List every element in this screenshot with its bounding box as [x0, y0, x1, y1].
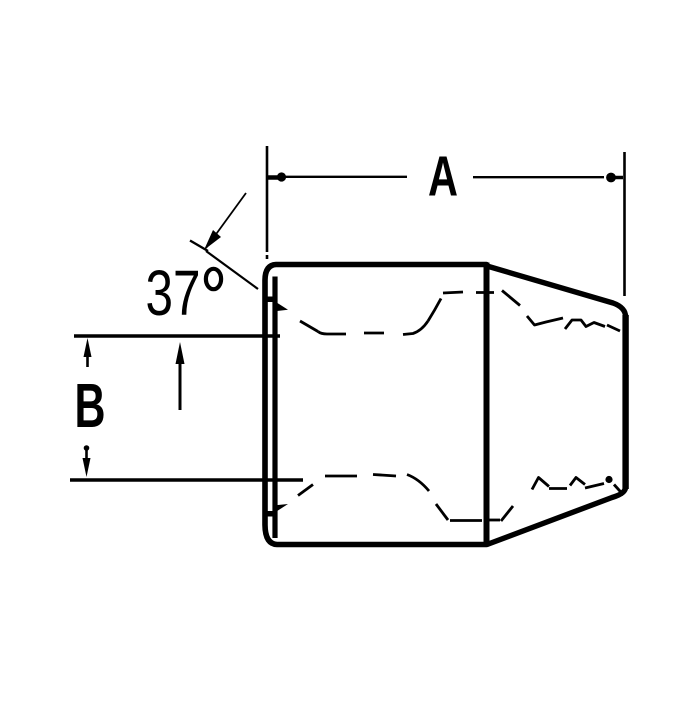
svg-text:B: B	[75, 372, 106, 441]
37 degree leader: upper arm	[190, 193, 246, 251]
label B	[75, 372, 106, 441]
hidden line: lower flare seat dash	[298, 485, 313, 496]
hidden line: upper counterbore dash across junction	[476, 291, 494, 294]
hidden line: lower counterbore drop dash	[436, 504, 448, 520]
hidden line: lower thread lead-in dash (cone)	[501, 506, 513, 521]
hidden line: upper counterbore dash	[443, 292, 463, 293]
37 degree leader: lower arm	[206, 251, 258, 289]
hidden line: upper thread wave 1	[527, 316, 563, 325]
hidden line: upper thread lead-in dash (cone)	[502, 291, 520, 306]
label 37 with degree symbol	[146, 257, 222, 329]
hidden line: lower thread dash 2	[585, 484, 604, 489]
svg-text:A: A	[428, 145, 458, 209]
hidden line: lower thread wave 2	[570, 478, 585, 486]
hidden line: upper bore dash 3 with rise to counterbore	[403, 321, 428, 335]
hidden line: lower thread dot	[605, 476, 612, 483]
hidden line: lower thread wave 1	[532, 478, 549, 490]
37 degree leader: filled arrowhead at flare seat	[266, 297, 288, 312]
hidden line: lower bore dash 2	[373, 475, 396, 477]
dimension A: right extension line	[623, 152, 626, 296]
hidden line: upper flare seat dash	[300, 321, 318, 332]
dimension A: left extension line	[266, 146, 269, 259]
dimension B: upper extension line	[74, 334, 280, 337]
left face inner edge line	[272, 277, 277, 539]
hidden line: upper thread wave 2	[565, 320, 605, 329]
hidden line: lower bore drop to counterbore	[407, 475, 429, 492]
hidden line: lower bore dash 1	[325, 475, 357, 478]
dimension B: upper arrow (points up)	[84, 338, 92, 367]
hidden line bridge at lower left face	[266, 511, 277, 517]
hidden line: lower thread dash	[549, 487, 567, 490]
hidden line: upper thread end dash	[607, 325, 620, 331]
hidden line: lower thread end dash	[614, 485, 624, 496]
label A	[428, 145, 458, 209]
junction line between body and cone	[484, 263, 490, 547]
hidden line: lower counterbore dash across junction	[489, 519, 500, 522]
hidden line: upper bore dashes	[318, 332, 346, 335]
flare seat arrowhead bottom (filled triangle at left inside)	[273, 504, 289, 514]
hidden line: lower counterbore dash	[450, 519, 482, 522]
dimension A: dimension line right segment with dot arrowhead	[473, 173, 623, 183]
dimension B: lower arrow (points down)	[83, 445, 91, 477]
nut body outline (hex body, left face with rounded corners)	[265, 265, 487, 545]
svg-text:37: 37	[146, 257, 201, 329]
dimension B: lower extension line	[70, 478, 303, 481]
leader arrow pointing up at flare line	[176, 342, 185, 410]
hidden line: upper bore dash 2	[364, 332, 384, 335]
hidden line: upper counterbore rise	[428, 299, 441, 322]
cone (tapered nose) outline	[487, 266, 626, 545]
dimension A: dimension line left segment with dot arrowhead	[268, 172, 407, 181]
